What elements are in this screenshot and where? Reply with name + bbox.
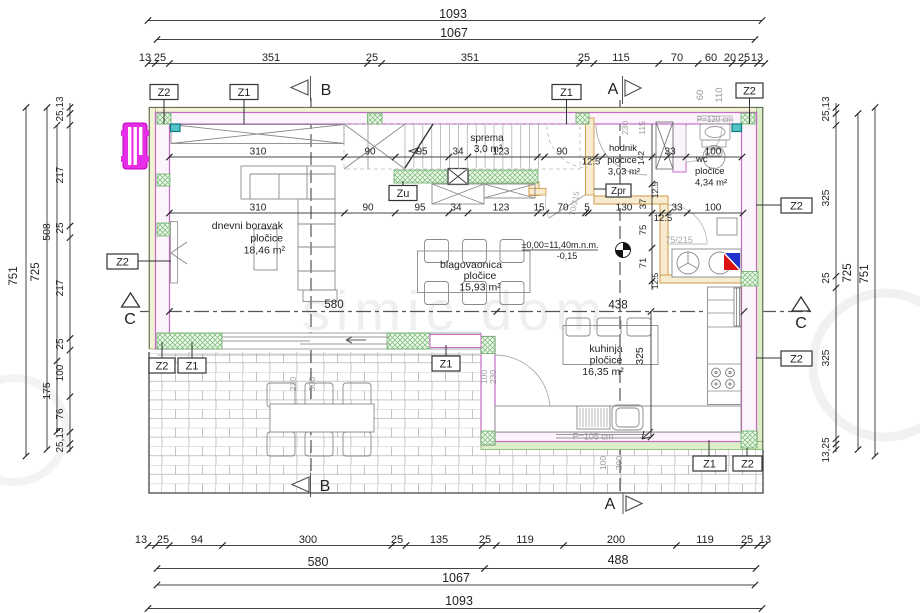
Z1 bottom-mid leader [445,345,447,356]
right counter shelves [708,300,742,391]
level marker [616,243,631,258]
svg-text:25: 25 [741,534,753,546]
wall hatch block 12 [741,272,758,287]
svg-text:Z1: Z1 [560,87,573,99]
svg-text:simic dom: simic dom [302,279,608,342]
Z1 top-right leader [566,100,568,125]
wall hatch block 9 [481,337,495,354]
svg-text:25: 25 [391,534,403,546]
kitchen chairs [566,318,651,336]
left dimension lines [26,103,70,456]
svg-text:±0,00=11,40m.n.m.: ±0,00=11,40m.n.m. [521,240,598,250]
spremiste dashed arc [547,126,588,168]
svg-text:230: 230 [288,377,298,391]
interior dim row1 texts [250,147,722,168]
svg-text:217: 217 [55,166,66,183]
svg-text:18,46 m²: 18,46 m² [244,245,286,257]
svg-text:25: 25 [821,272,832,284]
svg-text:Z1: Z1 [186,361,199,373]
svg-text:37: 37 [638,199,649,210]
Z2 box bottom-right2 [733,456,762,471]
svg-text:25,13: 25,13 [821,96,832,121]
Z2 right-top leader [756,204,781,206]
svg-text:25,13: 25,13 [55,427,66,452]
wall hatch block 4 [741,113,755,124]
svg-text:34: 34 [452,147,464,158]
svg-text:15: 15 [533,203,545,214]
wall right [742,113,757,442]
section line C horizontal [140,311,812,313]
Zpr box [606,184,631,197]
section line A vertical [619,100,621,492]
watermark circle left [0,378,66,482]
right dimension texts [821,96,871,462]
kitchen sink [612,405,643,430]
Zu box [389,186,417,201]
svg-text:20: 20 [724,52,736,64]
wall boiler left tan [660,204,668,277]
wall hatch block 5 [157,223,170,236]
svg-text:1067: 1067 [440,26,468,40]
wall hatch block 6 [157,174,170,186]
svg-text:25: 25 [738,52,750,64]
wall living bottom band [157,333,481,349]
svg-text:12.5: 12.5 [650,272,660,289]
top dimension lines [148,21,765,64]
Z1 box top [230,85,258,100]
appliance box [672,249,741,277]
svg-text:325: 325 [821,349,832,366]
terrace brick left [149,352,481,493]
svg-text:Zu: Zu [397,188,410,200]
spremiste lower cabinet 1 [432,184,484,204]
svg-text:123: 123 [493,147,510,158]
svg-text:12.5: 12.5 [654,213,673,224]
washbasin [700,124,730,140]
svg-text:725: 725 [30,262,42,281]
svg-text:351: 351 [461,52,479,64]
svg-text:B: B [321,82,332,99]
interior dim vertical texts [636,151,660,290]
wall spremiste tan corner 2 [529,189,546,196]
window living bottom slider [222,337,390,344]
Z2 left-mid leader [138,260,171,262]
Zpr leader [594,188,606,190]
terrace table [270,404,374,432]
door label 100 230 kitchen [479,370,498,384]
svg-text:13: 13 [139,52,151,64]
right dimension lines [836,103,875,456]
svg-text:100: 100 [598,456,608,470]
svg-text:Zpr: Zpr [611,186,627,197]
svg-text:751: 751 [859,264,871,283]
svg-text:13: 13 [135,534,147,546]
wall kitchen left [481,337,495,446]
label blagovaonica [440,259,502,294]
svg-text:90: 90 [364,147,376,158]
svg-text:Z1: Z1 [440,359,453,371]
svg-text:12.5: 12.5 [650,181,660,198]
toilet [702,140,726,169]
kitchen table [563,326,658,365]
svg-text:60: 60 [705,52,717,64]
window wc top [697,116,733,120]
boiler circle [709,252,731,274]
building outline dark [149,107,762,449]
wall hatch block 3 [576,113,589,124]
svg-text:1093: 1093 [439,7,467,21]
spremiste lower cabinet 2 [484,184,535,198]
svg-text:94: 94 [191,534,203,546]
svg-text:135: 135 [430,534,448,546]
Zu leader [402,181,404,186]
svg-text:Z2: Z2 [741,459,754,471]
svg-text:25: 25 [157,534,169,546]
svg-text:751: 751 [8,266,20,285]
svg-text:130: 130 [616,203,633,214]
svg-text:200: 200 [614,456,624,470]
svg-text:A: A [605,496,616,513]
Z1 bottom-right leader [708,440,710,456]
wall hatch block 11 [741,431,757,448]
cyan box top-left [171,124,181,132]
shelf column [298,199,337,302]
marker C left [122,293,140,328]
Z2 box right-top [781,198,812,213]
svg-text:P=105 cm: P=105 cm [573,432,614,442]
stairs up line [405,124,433,168]
svg-text:300: 300 [307,377,317,391]
terrace top edge line [157,354,480,356]
wall hatch block 8 [387,333,430,349]
level text [521,240,598,261]
wc door arc [686,126,722,162]
top dimension texts [139,7,763,64]
closet top living [171,125,344,144]
svg-text:P=120 cm: P=120 cm [697,115,734,124]
svg-text:142: 142 [636,151,646,165]
svg-text:hodnik: hodnik [609,143,637,154]
understair wall hatch [394,170,538,183]
Z1 box bottom-mid [432,356,460,371]
insulation left [149,108,156,350]
marker C right [792,297,810,332]
wall left [156,113,170,350]
Z1 box top-right [552,85,581,100]
svg-text:13: 13 [751,52,763,64]
shaft with X [656,122,673,169]
wall break mark [171,242,187,264]
slider arrow [346,337,366,343]
svg-text:kuhinja: kuhinja [589,343,622,355]
dim 580 438 on C line [166,299,747,315]
svg-text:300: 300 [299,534,317,546]
svg-text:pločice: pločice [250,233,283,245]
svg-text:12.5: 12.5 [582,157,601,168]
svg-text:pločice: pločice [590,355,623,367]
boiler door arc [668,205,707,244]
svg-text:115: 115 [637,121,647,135]
svg-text:Z1: Z1 [703,459,716,471]
interior dim row1 [169,156,742,158]
left dimension texts [8,96,66,452]
svg-text:pločice: pločice [464,270,497,282]
svg-text:25: 25 [578,52,590,64]
wall hatch block 10 [481,431,495,445]
terrace outline [149,352,763,493]
insulation right [757,108,764,450]
svg-text:90: 90 [556,147,568,158]
svg-text:33: 33 [664,147,676,158]
red blue square [724,253,740,270]
svg-text:95: 95 [414,203,426,214]
svg-text:508: 508 [41,223,53,241]
svg-text:-0,15: -0,15 [557,251,578,261]
Z1 box bottom-left [178,358,206,373]
svg-text:115: 115 [612,52,630,64]
entrance door arc [596,124,647,175]
svg-text:325: 325 [634,347,646,365]
label wc [695,154,727,189]
Z1 top leader [243,100,245,125]
marker A bottom [605,493,642,514]
window kitchen bottom [556,435,648,439]
Z2 box right-bottom [781,351,812,366]
svg-text:325: 325 [821,189,832,206]
svg-text:13,25: 13,25 [821,437,832,462]
coffee table [254,229,277,270]
wall hatch block 2 [368,113,383,124]
washing machine [677,252,699,274]
svg-text:3,03 m²: 3,03 m² [608,167,640,178]
Z1 box bottom-right [693,456,726,471]
svg-text:488: 488 [608,553,629,567]
svg-text:217: 217 [55,279,66,296]
svg-text:119: 119 [516,534,534,546]
svg-text:76: 76 [55,408,66,420]
svg-text:4,34 m²: 4,34 m² [695,178,727,189]
svg-text:dnevni boravak: dnevni boravak [212,220,284,232]
kitchen right counter [708,287,742,405]
bottom dimension texts [135,534,771,608]
svg-text:75/215: 75/215 [665,235,693,245]
section line B vertical [310,98,312,476]
svg-text:310: 310 [250,147,267,158]
wall arrow bottom kitchen [642,429,653,439]
Z2 top-left leader [163,100,165,125]
Z2 right-bottom leader [756,357,781,359]
radiator living left wall [171,222,178,284]
svg-text:B: B [320,478,331,495]
Z2 box top-right [736,83,763,98]
svg-text:Z2: Z2 [156,361,169,373]
Z2 box top-left [150,85,178,100]
svg-text:25: 25 [479,534,491,546]
marker A top [608,76,641,104]
svg-text:Z2: Z2 [116,257,129,269]
watermark circle right [813,293,920,437]
svg-text:60: 60 [695,90,706,101]
svg-text:Z2: Z2 [790,354,803,366]
svg-text:110: 110 [714,87,725,102]
svg-text:Z2: Z2 [790,201,803,213]
svg-text:C: C [124,311,136,328]
svg-text:34: 34 [450,203,462,214]
svg-text:438: 438 [608,300,627,312]
radiator magenta [121,123,149,169]
svg-text:351: 351 [262,52,280,64]
kitchen bottom counter [495,406,741,432]
svg-text:25,13: 25,13 [55,96,66,121]
svg-text:1093: 1093 [445,594,473,608]
svg-text:123: 123 [493,203,510,214]
stove burners [712,368,735,388]
door 70 arc [545,195,549,218]
svg-text:25: 25 [55,222,66,234]
svg-text:580: 580 [308,555,329,569]
Z1 bottom-left leader [191,342,193,358]
wc boiler box [717,218,737,235]
insulation bottom kitchen [481,442,763,450]
label kuhinja [582,343,624,378]
insulation top [149,108,763,114]
wall hatch block 7 [157,333,222,349]
dining table [418,251,531,293]
svg-text:A: A [608,81,619,98]
kitchen dim 325 [634,308,654,440]
svg-text:sprema: sprema [470,133,504,144]
wall boiler bottom tan [660,275,741,283]
svg-text:310: 310 [250,203,267,214]
marker B bottom [292,473,330,497]
svg-text:230: 230 [488,370,498,384]
Z2 bottom-left leader [161,342,163,358]
door 70 leaf [549,195,585,218]
svg-text:70: 70 [557,203,569,214]
dining chairs [425,240,525,305]
wall hatch block 1 [157,113,171,124]
svg-text:71: 71 [638,258,649,269]
svg-text:C: C [795,315,807,332]
marker B top [291,76,331,101]
svg-text:580: 580 [324,299,343,311]
label hodnik [607,143,640,178]
svg-text:Z2: Z2 [743,86,756,98]
sofa [241,166,335,199]
svg-text:175: 175 [41,382,53,400]
svg-text:200: 200 [607,534,625,546]
label dnevni boravak [212,220,286,257]
wall hodnik-wc [673,124,686,172]
stairs cut diagonal 1 [344,124,405,169]
svg-text:100: 100 [705,147,722,158]
stairs cut diagonal 2 [344,124,405,169]
wall top [156,113,757,125]
svg-text:230: 230 [620,121,630,135]
Z2 bottom-right2 leader [746,448,748,456]
kitchen door arc [495,355,550,410]
svg-text:119: 119 [696,534,714,546]
svg-text:Z2: Z2 [158,87,171,99]
terrace brick bottom strip [481,450,763,494]
Z2 box bottom-left [149,358,175,373]
svg-text:90: 90 [362,203,374,214]
bottom dimension lines [148,546,765,609]
svg-text:75: 75 [638,225,649,236]
interior dim row2 [169,212,742,214]
svg-text:Z1: Z1 [238,87,251,99]
label sprema [470,133,504,155]
svg-text:25: 25 [55,338,66,350]
stairs treads [405,124,539,169]
svg-text:95: 95 [416,147,428,158]
svg-text:pločice: pločice [695,166,725,177]
fridge hatch strip [734,288,741,326]
interior dim row2 texts [250,203,722,225]
svg-text:725: 725 [842,263,854,282]
column pillar with X [448,169,468,185]
svg-text:1067: 1067 [442,571,470,585]
Z2 box left-mid [107,254,138,269]
wall spremiste tan corner [529,182,539,196]
svg-text:70: 70 [671,52,683,64]
stairs direction arrow [409,148,418,154]
wall stub closet-stairs [367,124,369,169]
svg-text:25: 25 [366,52,378,64]
cyan box top-right [732,124,742,132]
svg-text:13: 13 [759,534,771,546]
svg-text:15,93 m²: 15,93 m² [459,282,501,294]
kitchen drawers [577,406,610,429]
wall bottom kitchen [481,432,757,442]
terrace chairs [267,383,371,456]
svg-text:100: 100 [705,203,722,214]
interior dim vertical hodnik [651,124,653,290]
Z2 top-right leader [749,98,751,124]
wall dining-hodnik tan [586,118,595,195]
wall hodnik bottom tan [594,196,668,204]
svg-text:33: 33 [671,203,683,214]
svg-text:5: 5 [584,203,590,214]
svg-text:16,35 m²: 16,35 m² [582,366,624,378]
window living bottom right [430,335,481,348]
svg-text:25: 25 [154,52,166,64]
svg-text:100: 100 [55,364,66,381]
stairs outline [344,124,580,169]
